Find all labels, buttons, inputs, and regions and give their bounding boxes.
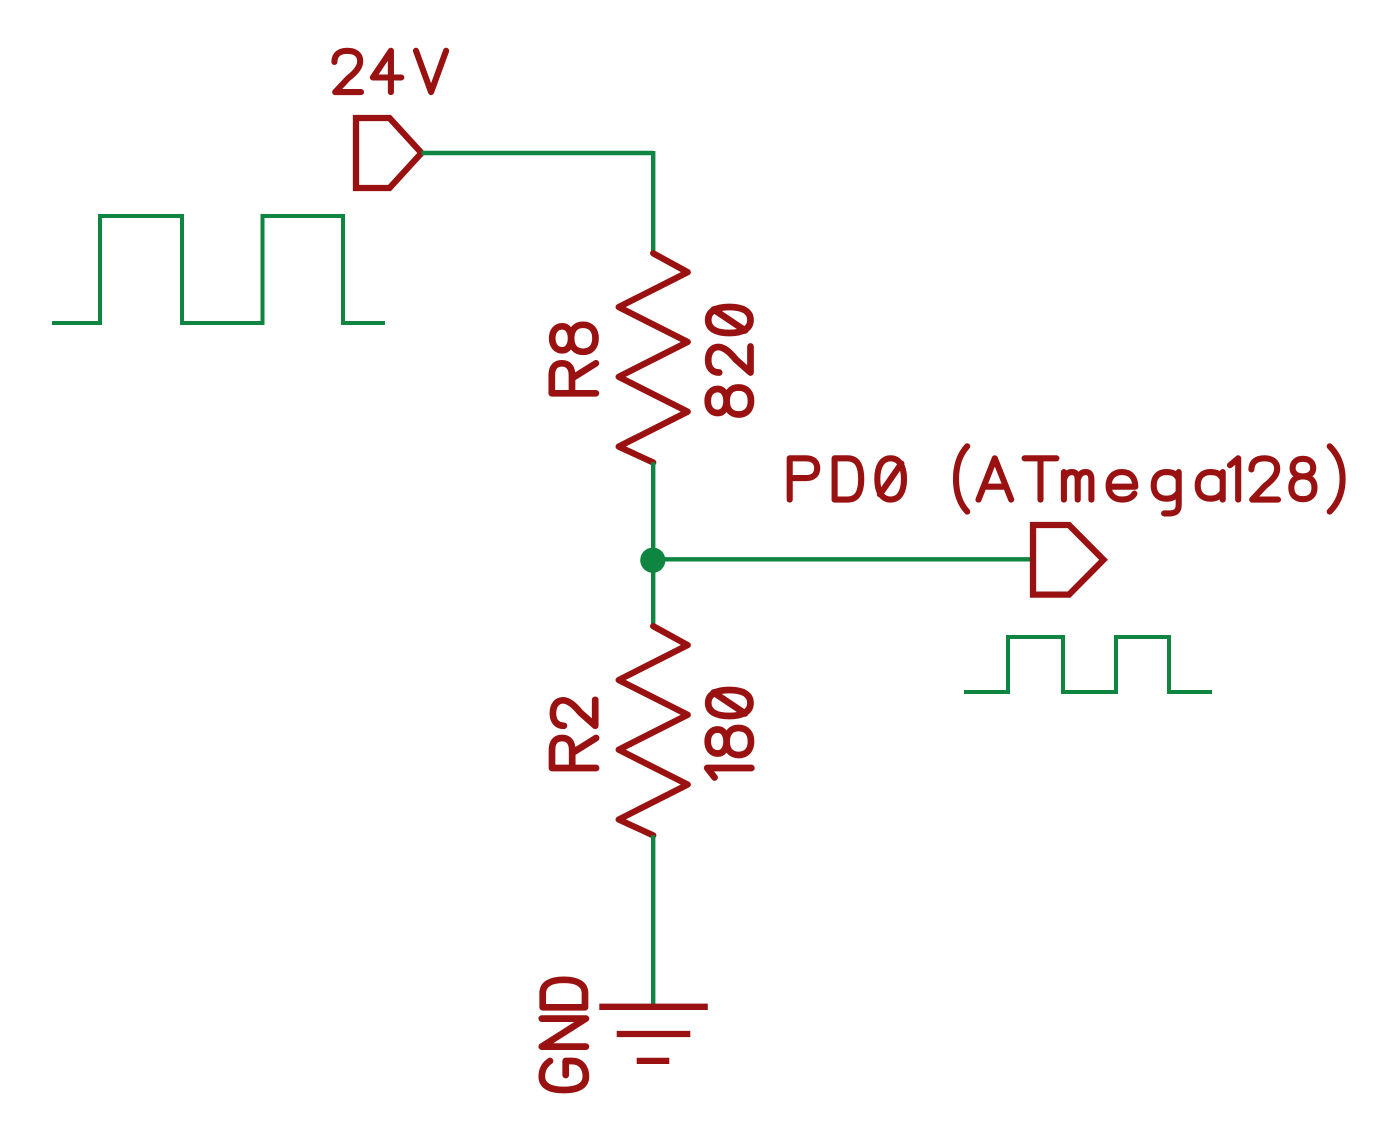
- wire from 24V label to corner: [422, 151, 654, 155]
- net name PD0 (ATmega128) text: [790, 446, 1343, 513]
- ground bar 3: [637, 1058, 670, 1064]
- wire R8 pin 2 to junction: [651, 462, 655, 560]
- wire junction down to R2 pin 1: [651, 560, 655, 626]
- global label PD0 symbol: [1033, 525, 1104, 595]
- value 180 text: [707, 690, 751, 778]
- ground bar 2: [617, 1031, 691, 1037]
- value 820 text: [708, 307, 751, 415]
- waveform annotation: PD0 output square wave: [964, 637, 1212, 692]
- wire junction to PD0 label: [653, 557, 1035, 561]
- wire R2 pin 2 to ground: [651, 835, 655, 1007]
- ground bar 1: [599, 1004, 708, 1010]
- reference R8 text: [552, 325, 596, 394]
- waveform annotation: 24V input square wave: [52, 216, 385, 323]
- junction node: [640, 548, 665, 573]
- ground symbol GND: [599, 1007, 708, 1061]
- resistor R8: [619, 253, 688, 462]
- global label 24V symbol: [356, 118, 422, 188]
- resistor R2: [619, 626, 688, 835]
- wire corner down to R8 pin 1: [651, 151, 655, 254]
- net name GND text: [542, 980, 586, 1090]
- reference R2 text: [552, 700, 596, 768]
- net name 24V text: [334, 51, 446, 92]
